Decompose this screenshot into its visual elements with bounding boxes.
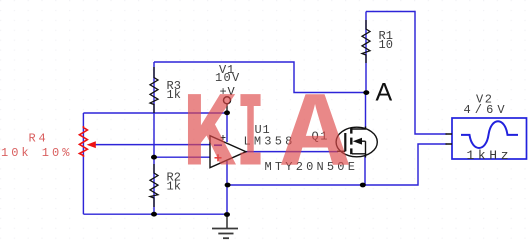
wire: V1 to op-amp V+ pin: [226, 111, 228, 142]
KIA watermark: [182, 77, 350, 198]
wire: R3/R2 vertical column: [153, 62, 155, 214]
op-amp U1: [210, 136, 246, 168]
wire: op-amp output to MOSFET gate: [246, 151, 338, 153]
V2 pin 1 stub: [446, 133, 453, 135]
resistor R3: [150, 67, 158, 113]
Q1 gate lead: [337, 150, 345, 152]
wire: R1 vertical branch: [365, 12, 367, 93]
wire: plus input from divider node: [154, 156, 210, 158]
Q1 channel segments: [350, 128, 352, 134]
svg-text:1k: 1k: [167, 180, 181, 194]
transistor Q1 MOSFET body: [336, 127, 377, 157]
svg-text:10: 10: [379, 38, 393, 52]
svg-text:4/6V: 4/6V: [464, 103, 509, 117]
svg-text:K: K: [182, 77, 237, 198]
power source V1 (+V): [224, 97, 231, 104]
wire: R1 loop top and right side down to V2 pin1: [366, 12, 447, 135]
V2 sine waveform: [461, 121, 518, 148]
resistor R1: [362, 20, 370, 63]
svg-text:A: A: [281, 77, 350, 198]
wire: bottom ground rail: [83, 213, 227, 215]
ground: [226, 214, 228, 228]
wire: V1 top horizontal (R4 top to V1 junction): [83, 112, 227, 114]
wire: mid rail to V2 pin2: [227, 144, 447, 185]
Q1 body arrow: [353, 138, 362, 145]
junction: plus input node: [151, 155, 157, 160]
resistor R2: [150, 164, 158, 207]
svg-text:A: A: [376, 79, 393, 107]
Q1 drain connection: [352, 127, 366, 130]
wire: MOSFET source down to rail: [364, 157, 366, 186]
junction: node A: [363, 90, 369, 95]
op-amp V+ pin mark: [221, 135, 226, 140]
svg-text:1k: 1k: [167, 88, 181, 102]
junction: R2 bottom: [151, 212, 157, 217]
svg-text:R4: R4: [29, 132, 49, 146]
wire: R3 top to node A stepped wire: [154, 62, 366, 93]
V2 pin 2 stub: [446, 143, 453, 145]
wire: R4 wiper to op-amp minus input: [95, 144, 210, 146]
svg-text:1kHz: 1kHz: [467, 148, 513, 163]
junction: MOSFET source on rail: [360, 183, 366, 188]
potentiometer R4 wiper arrow: [87, 141, 96, 148]
wire: op-amp V- down to rails: [226, 161, 228, 214]
op-amp plus input symbol: [215, 154, 222, 161]
op-amp minus input symbol: [214, 144, 222, 146]
junction: V1 node: [224, 110, 230, 115]
svg-text:I: I: [237, 77, 264, 198]
Q1 gate bar: [344, 133, 346, 151]
svg-text:10k 10%: 10k 10%: [1, 146, 72, 160]
potentiometer R4: [79, 126, 87, 157]
wire: R4 left column: [82, 113, 84, 214]
source V2 box: [452, 118, 527, 159]
junction: mid rail T: [225, 183, 231, 188]
Q1 body link: [362, 140, 366, 142]
junction: ground node: [224, 212, 230, 217]
wire: node A down to MOSFET drain: [365, 93, 367, 129]
Q1 source connection: [352, 154, 366, 158]
